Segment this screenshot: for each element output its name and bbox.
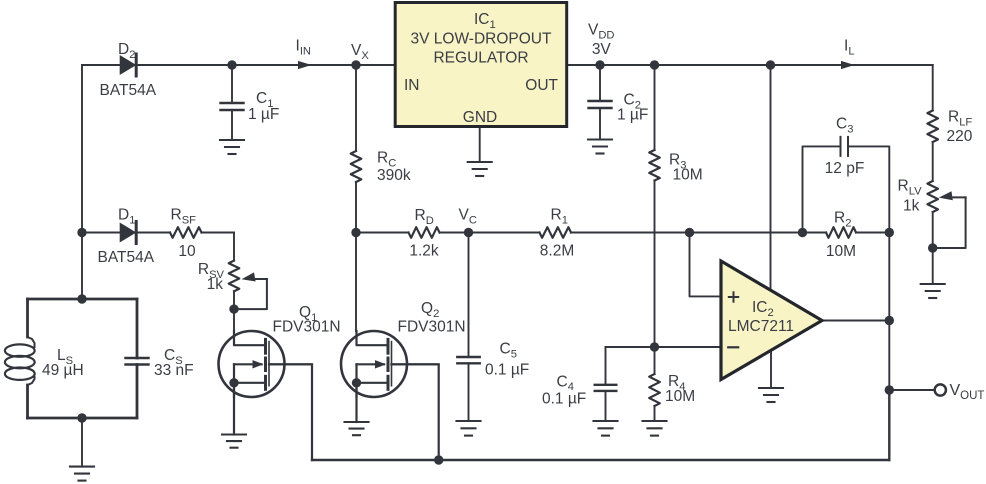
svg-text:RSF: RSF [171,207,197,227]
ground (Q2) [345,422,369,435]
wire tank top junction up [81,298,83,300]
label R2 designator [834,210,851,230]
label IC1 line REGULATOR [433,50,528,67]
wire RLV to ground [932,248,934,284]
label C1 value 1 uF [248,106,279,123]
label IC1 designator [474,11,496,31]
svg-text:IN: IN [404,77,420,94]
svg-text:49 µH: 49 µH [42,362,84,379]
junction node C1 top [227,60,236,69]
junction node C3 left [798,228,807,237]
label IC1 line 3V LOW-DROPOUT [411,31,552,48]
op-amp U2 (IC2 LMC7211) [721,261,822,380]
label C3 designator [836,116,853,136]
resistor R2 [826,227,856,238]
junction node VOUT tap [885,385,894,394]
wire tank loop top [28,298,138,301]
wire comparator V+ supply branch [770,65,772,290]
label R3 designator [669,152,686,172]
svg-text:BAT54A: BAT54A [98,249,155,266]
pin label plus input [729,292,738,301]
wiper of RLV [933,191,966,248]
pin label IN [404,77,420,94]
junction node R2 right [885,228,894,237]
svg-text:REGULATOR: REGULATOR [433,50,528,67]
node VX label [351,42,369,62]
ground (C5) [457,421,481,436]
pin label GND [463,109,497,126]
inductor LS [5,337,35,385]
label C3 value 12 pF [825,160,865,177]
wire bottom rail [312,459,889,461]
ground (Q1) [222,435,246,448]
svg-text:10M: 10M [673,167,703,184]
wire C2 to ground [599,108,601,140]
wire C1 stem [231,65,233,103]
svg-text:1k: 1k [207,276,224,293]
label R1 value 8.2M [540,243,574,260]
junction node VX [351,60,360,69]
wire C4 stem [605,347,607,385]
svg-text:IL: IL [844,38,855,58]
wire R4 to ground [654,406,656,421]
wire left branch vertical [81,65,83,299]
junction node RLV bottom [928,243,937,252]
wire comparator V- to ground [770,350,772,388]
svg-text:FDV301N: FDV301N [398,319,466,336]
node VC label [459,207,477,227]
node VDD label [588,22,615,42]
current label I-IN [296,38,312,58]
label RLV value 1k [903,198,920,215]
wire C3 loop left [803,146,840,232]
wire tank loop left lower [26,385,29,418]
resistor R4 [649,374,660,406]
wire VOUT node down to bottom rail [888,390,890,460]
label CS value 33 nF [154,362,194,379]
label RSV designator [198,261,225,281]
wire output feedback vertical [888,233,890,321]
label R1 designator [551,207,568,227]
wire RLF-RLV link [932,142,934,181]
svg-text:33 nF: 33 nF [154,362,194,379]
wire VC row seg4 [856,232,889,234]
resistor RC [351,151,362,182]
current label I-L [844,38,855,58]
label RLF designator [948,109,972,129]
label C2 value 1 uF [617,107,648,124]
transistor Q2 [341,331,439,397]
wire Q2 gate down to bottom rail [392,364,439,460]
resistor RSF [170,227,202,238]
potentiometer RSV [229,261,240,292]
diode D2 [120,54,137,76]
wire R3 column top [654,65,656,150]
wire output down to VOUT node [888,321,890,391]
svg-text:C5: C5 [500,341,517,361]
svg-text:BAT54A: BAT54A [100,82,157,99]
wire D1 row left [82,232,170,234]
label RD designator [415,207,434,227]
wire tank to ground [81,418,83,467]
arrow I-IN [298,61,312,69]
wire tank loop left upper [26,299,29,337]
junction node D1 left [77,228,86,237]
wire top rail right (VDD rail) [567,64,933,66]
label Q2 designator [421,300,439,320]
wire R3 bottom to minus node [654,181,656,348]
label CS designator [164,347,183,367]
label VDD value 3V [592,41,612,58]
label LS value 49 uH [42,362,84,379]
wire VOUT stub [889,389,934,391]
pin label OUT [525,77,558,94]
wire top rail left (D2 row) [82,64,395,66]
label C5 value 0.1 uF [485,362,529,379]
label RLV designator [898,178,923,198]
wire VC row seg3 [571,232,826,234]
wire R4 column [654,347,656,374]
label RC value 390k [377,167,411,184]
label C4 designator [557,373,574,393]
svg-text:OUT: OUT [525,77,558,94]
wire VC row seg1 [356,232,409,234]
svg-text:VDD: VDD [588,22,615,42]
wire tank loop right lower [136,365,139,419]
wire plus input branch [690,233,722,297]
junction node R3 top [650,60,659,69]
wire Q1 gate down to bottom rail [270,364,313,460]
ground (C1) [220,140,244,154]
svg-text:VX: VX [351,42,369,62]
svg-text:RLV: RLV [898,178,923,198]
wire C3 loop right [849,146,889,232]
label D2 value BAT54A [100,82,157,99]
wire D1 row right [202,232,235,234]
label D1 designator [118,207,135,227]
junction node tank top [77,294,86,303]
label R4 value 10M [665,388,695,405]
capacitor C3 [841,137,849,156]
ground (RLV) [921,284,945,298]
svg-text:3V LOW-DROPOUT: 3V LOW-DROPOUT [411,31,552,48]
svg-text:GND: GND [463,109,497,126]
pin label minus input [728,346,738,348]
svg-text:390k: 390k [377,167,411,184]
ground (LS-CS tank) [70,467,94,481]
svg-text:1 µF: 1 µF [617,107,648,124]
svg-text:0.1 µF: 0.1 µF [485,362,529,379]
svg-text:C3: C3 [836,116,853,136]
label R2 value 10M [826,243,856,260]
label RLF value 220 [947,128,973,145]
svg-text:12 pF: 12 pF [825,160,865,177]
wire Q2 source to ground [355,383,357,422]
label RSF value 10 [178,243,196,260]
label VOUT [950,382,985,402]
wire Q1 source to ground [233,383,235,435]
junction node comparator supply tap [766,60,775,69]
svg-text:1 µF: 1 µF [248,106,279,123]
label RSF designator [171,207,197,227]
wire VC row seg2 [440,232,540,234]
wire C1 to ground [231,110,233,140]
wire C2 stem [599,65,601,101]
wire RC column [355,65,357,151]
label D2 designator [118,41,135,61]
wiper of RSV [234,272,267,309]
svg-text:8.2M: 8.2M [540,243,574,260]
junction node bottom rail (gates) [434,455,443,464]
svg-text:220: 220 [947,128,973,145]
wire RSF corner down to RSV [233,233,235,261]
svg-text:10M: 10M [665,388,695,405]
wire tank loop bottom [28,417,138,420]
wire top-right corner down to RLF [932,65,934,111]
label C5 designator [500,341,517,361]
label D1 value BAT54A [98,249,155,266]
label Q1 value FDV301N [273,319,341,336]
wire tank loop right upper [136,299,139,358]
wire minus input row [606,346,722,348]
junction node RC bottom [351,228,360,237]
transistor Q1 [219,331,313,397]
svg-text:Q2: Q2 [421,300,439,320]
svg-text:FDV301N: FDV301N [273,319,341,336]
svg-text:RLF: RLF [948,109,972,129]
svg-text:R2: R2 [834,210,851,230]
label LS designator [57,347,73,367]
label C2 designator [624,92,641,112]
IC U1 (IC1 3V low-dropout regulator) box [395,3,567,127]
ground (IC2) [759,388,783,402]
svg-text:D1: D1 [118,207,135,227]
wire IC1 GND pin [479,127,481,163]
capacitor C1 [221,103,244,110]
svg-text:1.2k: 1.2k [409,243,439,260]
wire Q2 drain column [355,233,357,332]
ground (C4) [594,421,618,436]
ground (IC1 GND) [468,162,492,176]
ground (C2) [588,140,612,154]
junction node VDD [595,60,604,69]
wire C5 stem [468,233,470,358]
wire comparator output [822,320,889,322]
svg-text:VC: VC [459,207,477,227]
svg-text:VOUT: VOUT [950,382,985,402]
label R3 value 10M [673,167,703,184]
wire C4 to ground [605,391,607,421]
resistor RD [409,227,440,238]
capacitor C2 [589,101,612,108]
capacitor C5 [457,357,479,363]
junction node minus (R3-R4) [650,342,659,351]
wire C5 to ground [468,363,470,421]
junction node tank bottom [77,413,86,422]
label C4 value 0.1 uF [542,391,586,408]
label IC2 value LMC7211 [728,318,794,335]
label Q2 value FDV301N [398,319,466,336]
junction node plus-branch [685,228,694,237]
resistor R1 [540,227,572,238]
arrow I-L [841,61,855,69]
svg-text:10: 10 [178,243,196,260]
svg-text:0.1 µF: 0.1 µF [542,391,586,408]
diode D1 [120,222,137,244]
label Q1 designator [299,304,317,324]
label C1 designator [256,90,273,110]
svg-text:D2: D2 [118,41,135,61]
svg-text:R1: R1 [551,207,568,227]
capacitor C4 [595,385,617,391]
wire RSV bottom to Q1 drain [233,291,235,331]
capacitor CS [126,358,149,365]
label RSV value 1k [207,276,224,293]
resistor R3 [649,150,660,181]
svg-text:10M: 10M [826,243,856,260]
label R4 designator [668,373,685,393]
label RD value 1.2k [409,243,439,260]
ground (R4) [643,421,667,436]
svg-text:IIN: IIN [296,38,312,58]
wire RLV bottom [932,212,934,248]
potentiometer RLV [927,181,938,212]
junction node comparator output [885,316,894,325]
svg-text:1k: 1k [903,198,920,215]
terminal VOUT [935,384,946,395]
resistor RLF [927,111,938,143]
junction node RSV bottom [229,304,238,313]
label RC designator [377,150,396,170]
wire RC bottom to VC row [355,182,357,233]
svg-text:3V: 3V [592,41,612,58]
label IC2 designator [752,299,774,319]
svg-text:RD: RD [415,207,434,227]
junction node VC [464,228,473,237]
svg-text:LMC7211: LMC7211 [728,318,794,335]
